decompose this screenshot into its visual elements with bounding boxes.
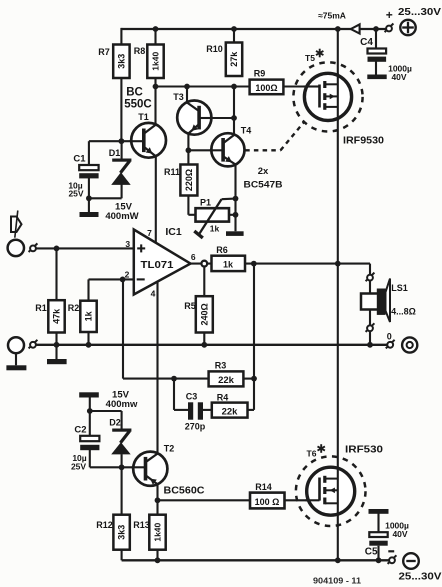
positive supply connector [385, 24, 394, 33]
positive supply terminal 25-30V [386, 7, 442, 35]
wire R8 bottom / T1 collector [154, 78, 156, 125]
svg-text:T4: T4 [241, 126, 252, 136]
svg-text:40V: 40V [392, 529, 407, 539]
input terminal lower [8, 337, 24, 353]
thermal coupling dashed link T4 to T5 [245, 122, 304, 151]
wire T4 base [188, 149, 223, 151]
svg-text:IRF530: IRF530 [345, 444, 383, 456]
wire R13 top lead [156, 500, 158, 514]
svg-text:R7: R7 [98, 47, 110, 57]
wire lower input terminal ground lead [15, 353, 17, 365]
wire IC1 pin6 output [191, 263, 212, 265]
svg-text:R10: R10 [206, 44, 223, 54]
svg-text:IRF9530: IRF9530 [343, 135, 384, 147]
wire C5 top lead [377, 514, 379, 533]
power MOSFET T6 IRF530 [296, 444, 366, 526]
document number 904109-11 [313, 577, 362, 586]
wire R2 bottom lead [87, 332, 89, 345]
power MOSFET T5 IRF9530 [293, 49, 362, 132]
svg-text:1k: 1k [83, 310, 93, 321]
transistor T1 BC550C [130, 112, 166, 158]
label IRF9530 [343, 135, 384, 147]
svg-text:25V: 25V [71, 462, 86, 472]
svg-text:270p: 270p [185, 422, 206, 432]
wire 0 volt rail [36, 344, 387, 346]
resistor R3 22k [209, 361, 244, 387]
resistor R6 1k [212, 245, 246, 271]
svg-text:C2: C2 [74, 425, 86, 436]
capacitor C5 1000u 40V [365, 521, 409, 558]
svg-text:7: 7 [147, 228, 152, 238]
input arrow symbol [11, 211, 22, 238]
svg-text:T1: T1 [138, 112, 149, 122]
svg-text:R1: R1 [35, 303, 47, 313]
resistor R10 27k [206, 43, 242, 77]
svg-text:C5: C5 [365, 547, 378, 558]
wire input to IC1 pin3 [36, 247, 134, 249]
svg-text:+: + [386, 8, 393, 22]
svg-text:0: 0 [387, 332, 392, 342]
svg-text:TL071: TL071 [141, 259, 174, 271]
svg-text:BC560C: BC560C [164, 485, 205, 497]
resistor R11 220 ohm [164, 165, 197, 196]
transistor T3 BC547B [173, 92, 213, 135]
svg-text:T5: T5 [305, 53, 315, 63]
wire feedback from pin2 node down to R3 [123, 279, 209, 378]
ground above C2 [79, 392, 99, 397]
wire R13 bottom lead [156, 550, 158, 561]
resistor R5 240 ohm [184, 296, 213, 332]
svg-text:D1: D1 [109, 148, 121, 158]
wire D1 top lead [121, 141, 123, 158]
svg-text:220Ω: 220Ω [184, 169, 194, 191]
loudspeaker connector lower [366, 323, 375, 332]
wire T1 base [89, 140, 144, 142]
negative supply terminal 25-30V [399, 553, 442, 582]
wire T2 emitter to T6 gate [158, 499, 320, 501]
wire ground stub above C2 [89, 398, 91, 412]
wire T2 base [122, 466, 146, 468]
svg-text:R11: R11 [164, 167, 180, 177]
loudspeaker connector upper [366, 273, 375, 282]
input terminal upper [8, 240, 24, 256]
wire loudspeaker top lead [369, 281, 371, 294]
wire D1 bottom lead [121, 185, 123, 199]
wire D2 top lead [121, 411, 123, 429]
svg-text:R4: R4 [217, 393, 229, 403]
resistor R12 3k3 [96, 515, 130, 550]
resistor R7 3k3 [98, 45, 129, 79]
svg-text:550C: 550C [124, 99, 152, 111]
wire C2 top lead [89, 411, 91, 436]
wire C3 to R4 [203, 409, 212, 411]
resistor R2 1k [68, 301, 97, 332]
svg-text:BC547B: BC547B [244, 180, 283, 191]
resistor R1 47k [35, 300, 64, 332]
wire R3 right to feedback column [243, 378, 254, 380]
resistor R4 22k [212, 393, 248, 418]
capacitor C1 10u 25V [68, 154, 98, 199]
svg-text:R5: R5 [184, 301, 196, 311]
wire C4 top lead [375, 29, 377, 49]
wire positive supply rail [121, 28, 386, 30]
ground above C5 [369, 509, 389, 514]
wire IC1 pin2 [89, 278, 134, 280]
input connector lower [29, 340, 38, 349]
svg-text:1k: 1k [210, 224, 220, 234]
svg-text:100Ω: 100Ω [255, 83, 277, 93]
svg-text:2x: 2x [258, 166, 269, 177]
wire T5/T6 drain output line [337, 29, 339, 560]
label BC560C [164, 485, 205, 497]
svg-text:C1: C1 [73, 154, 86, 165]
transistor T2 BC560C [132, 444, 175, 486]
wire C4 bottom lead [375, 62, 377, 75]
wire T3 collector lead [186, 87, 188, 103]
wire R1 bottom lead and ground stub [55, 333, 57, 360]
svg-text:R9: R9 [254, 69, 266, 79]
capacitor C4 1000u 40V [360, 37, 412, 82]
svg-text:R3: R3 [215, 361, 227, 371]
op-amp IC1 TL071 [125, 226, 196, 299]
svg-text:6: 6 [191, 252, 196, 262]
wire negative supply rail [122, 559, 390, 561]
svg-text:T6: T6 [307, 449, 317, 459]
label IRF530 [345, 444, 383, 456]
negative supply connector [388, 551, 397, 564]
svg-text:R2: R2 [68, 303, 80, 313]
ground below R1 [47, 359, 67, 364]
ground below P1 [226, 231, 244, 236]
wire P1 wiper to T4 emitter line [222, 198, 236, 201]
svg-text:T2: T2 [164, 444, 175, 454]
ground below C1 [80, 212, 99, 217]
svg-text:904109 - 11: 904109 - 11 [313, 577, 362, 586]
loudspeaker LS1 4-8 ohm [361, 279, 416, 323]
wire R6 right to output line [245, 263, 338, 265]
svg-text:240Ω: 240Ω [199, 303, 209, 325]
svg-text:25...30V: 25...30V [398, 7, 441, 18]
wire loudspeaker bottom lead [369, 310, 371, 326]
svg-text:R12: R12 [96, 520, 113, 530]
wire D2 bottom lead [121, 454, 123, 467]
svg-text:1k: 1k [223, 260, 234, 270]
output node of IC1 [201, 261, 207, 267]
svg-text:R13: R13 [133, 520, 150, 530]
wire IC1 pin4 to T2 collector [156, 282, 158, 454]
preset P1 1k [194, 198, 229, 238]
resistor R8 1k40 [134, 45, 164, 79]
svg-text:100 Ω: 100 Ω [255, 497, 280, 507]
wire R5 top lead [203, 266, 205, 296]
wire R7 bottom to T1 base node [120, 78, 122, 141]
zener diode D1 15V 400mW [105, 148, 138, 222]
capacitor C3 270p [185, 392, 206, 432]
svg-text:T3: T3 [173, 92, 184, 102]
transistor T4 BC547B [210, 126, 251, 167]
label 2x BC547B [244, 166, 283, 191]
wire ground stub below C1 [88, 198, 90, 212]
svg-text:3k3: 3k3 [117, 525, 127, 540]
wire R10 top lead [233, 29, 235, 43]
svg-text:R6: R6 [216, 245, 228, 255]
output 0 terminal [402, 337, 417, 352]
resistor R14 100 ohm [250, 482, 285, 508]
svg-text:R14: R14 [255, 482, 272, 492]
svg-text:2: 2 [125, 270, 130, 280]
wire R2 top lead [87, 279, 89, 300]
wire C2 bottom lead to T2 base node [90, 450, 122, 467]
svg-text:1k40: 1k40 [152, 522, 162, 541]
wire C1 top lead [88, 141, 90, 165]
wire P1 right lead [229, 214, 236, 216]
svg-text:22k: 22k [222, 407, 239, 418]
svg-text:25...30V: 25...30V [399, 572, 442, 583]
wire IC1 pin7 to T1 emitter [155, 156, 157, 242]
svg-text:LS1: LS1 [391, 283, 408, 293]
svg-text:R8: R8 [134, 46, 146, 56]
wire T4 emitter down to ground [234, 165, 236, 232]
svg-text:BC: BC [126, 87, 143, 99]
svg-text:27k: 27k [229, 51, 239, 67]
wire gate line R8 node to T5 gate [156, 85, 320, 87]
wire R11 bottom to P1 [188, 196, 195, 215]
wire R12 bottom lead [121, 550, 123, 561]
resistor R13 1k40 [133, 515, 165, 550]
resistor R9 100 ohm [250, 69, 284, 95]
wire T3 emitter to R11 [187, 134, 189, 165]
svg-text:3k3: 3k3 [116, 54, 126, 69]
capacitor C2 10u 25V [71, 425, 99, 472]
wire R12 top lead [121, 467, 123, 514]
svg-text:40V: 40V [391, 72, 406, 82]
svg-text:IC1: IC1 [165, 226, 182, 238]
wire T2 emitter lead [156, 484, 158, 500]
zener diode D2 15V 400mW [109, 418, 131, 455]
wire output to loudspeaker [338, 264, 370, 275]
label 15V 400mW lower [106, 390, 138, 411]
svg-text:4: 4 [151, 289, 156, 299]
input connector upper [29, 243, 38, 252]
wire R1 top lead [55, 248, 57, 300]
wire C2 node to D2 top [90, 410, 122, 412]
wire R6 node down to R4 [248, 264, 255, 410]
output 0 connector [386, 332, 395, 349]
wire R10 bottom to T4 collector [233, 87, 235, 136]
svg-text:C4: C4 [360, 37, 373, 48]
wire C1 to D1 bottom [89, 197, 122, 199]
svg-text:≈75mA: ≈75mA [318, 11, 346, 21]
svg-text:C3: C3 [186, 392, 198, 402]
svg-text:1k40: 1k40 [150, 52, 160, 71]
svg-text:22k: 22k [218, 375, 235, 386]
svg-text:400mW: 400mW [105, 211, 138, 222]
svg-text:400mw: 400mw [106, 399, 138, 410]
wire R5 bottom lead [203, 333, 205, 345]
wire C1 bottom lead [88, 178, 90, 198]
wire C3 left branch [174, 379, 188, 410]
svg-text:4...8Ω: 4...8Ω [391, 307, 416, 317]
wire T3 base to T4 collector line [199, 117, 234, 119]
svg-text:3: 3 [125, 239, 130, 249]
wire loudspeaker return to 0 rail [369, 331, 371, 345]
svg-text:P1: P1 [200, 198, 211, 208]
svg-text:D2: D2 [109, 418, 121, 428]
wire R7 top lead [120, 28, 122, 45]
wire C5 bottom lead [377, 546, 379, 561]
svg-text:25V: 25V [68, 189, 83, 199]
svg-text:47k: 47k [51, 308, 61, 324]
ground below C4 [367, 75, 386, 80]
ground below lower input terminal [6, 365, 26, 370]
wire R8 top lead [154, 29, 156, 45]
label BC550C [124, 87, 152, 111]
current label 75mA with arrow [318, 11, 360, 34]
